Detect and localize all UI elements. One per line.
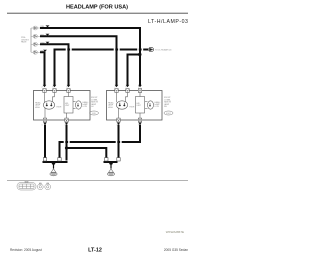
svg-text:LOW: LOW <box>83 106 88 108</box>
svg-text:6: 6 <box>67 87 68 89</box>
svg-text:7: 7 <box>65 125 66 127</box>
svg-text:E26: E26 <box>92 113 95 115</box>
svg-text:E107: E107 <box>166 113 170 115</box>
svg-text:PAGE: PAGE <box>21 41 27 44</box>
svg-text:TO LT-H/LAMP-04: TO LT-H/LAMP-04 <box>155 49 172 52</box>
svg-text:7: 7 <box>138 125 139 127</box>
svg-text:HEADLAMP (FOR USA): HEADLAMP (FOR USA) <box>66 5 128 11</box>
svg-text:HIGH: HIGH <box>108 107 113 109</box>
svg-text:8: 8 <box>53 87 54 89</box>
svg-text:LOW: LOW <box>155 106 160 108</box>
svg-text:2: 2 <box>42 87 43 89</box>
svg-text:8: 8 <box>126 87 127 89</box>
svg-text:1: 1 <box>42 125 43 127</box>
svg-text:Revision: 2005 August: Revision: 2005 August <box>10 248 42 252</box>
svg-text:WKWA2867E: WKWA2867E <box>166 230 184 234</box>
svg-text:6: 6 <box>138 87 139 89</box>
svg-text:HIGH: HIGH <box>35 107 40 109</box>
svg-text:HIGH: HIGH <box>57 107 62 109</box>
svg-text:LT-12: LT-12 <box>88 248 102 254</box>
svg-text:2: 2 <box>115 87 116 89</box>
svg-text:HIGH: HIGH <box>130 107 135 109</box>
svg-text:2005 G35 Sedan: 2005 G35 Sedan <box>164 248 188 252</box>
svg-text:1: 1 <box>117 125 118 127</box>
svg-text:LT-H/LAMP-03: LT-H/LAMP-03 <box>148 19 189 25</box>
